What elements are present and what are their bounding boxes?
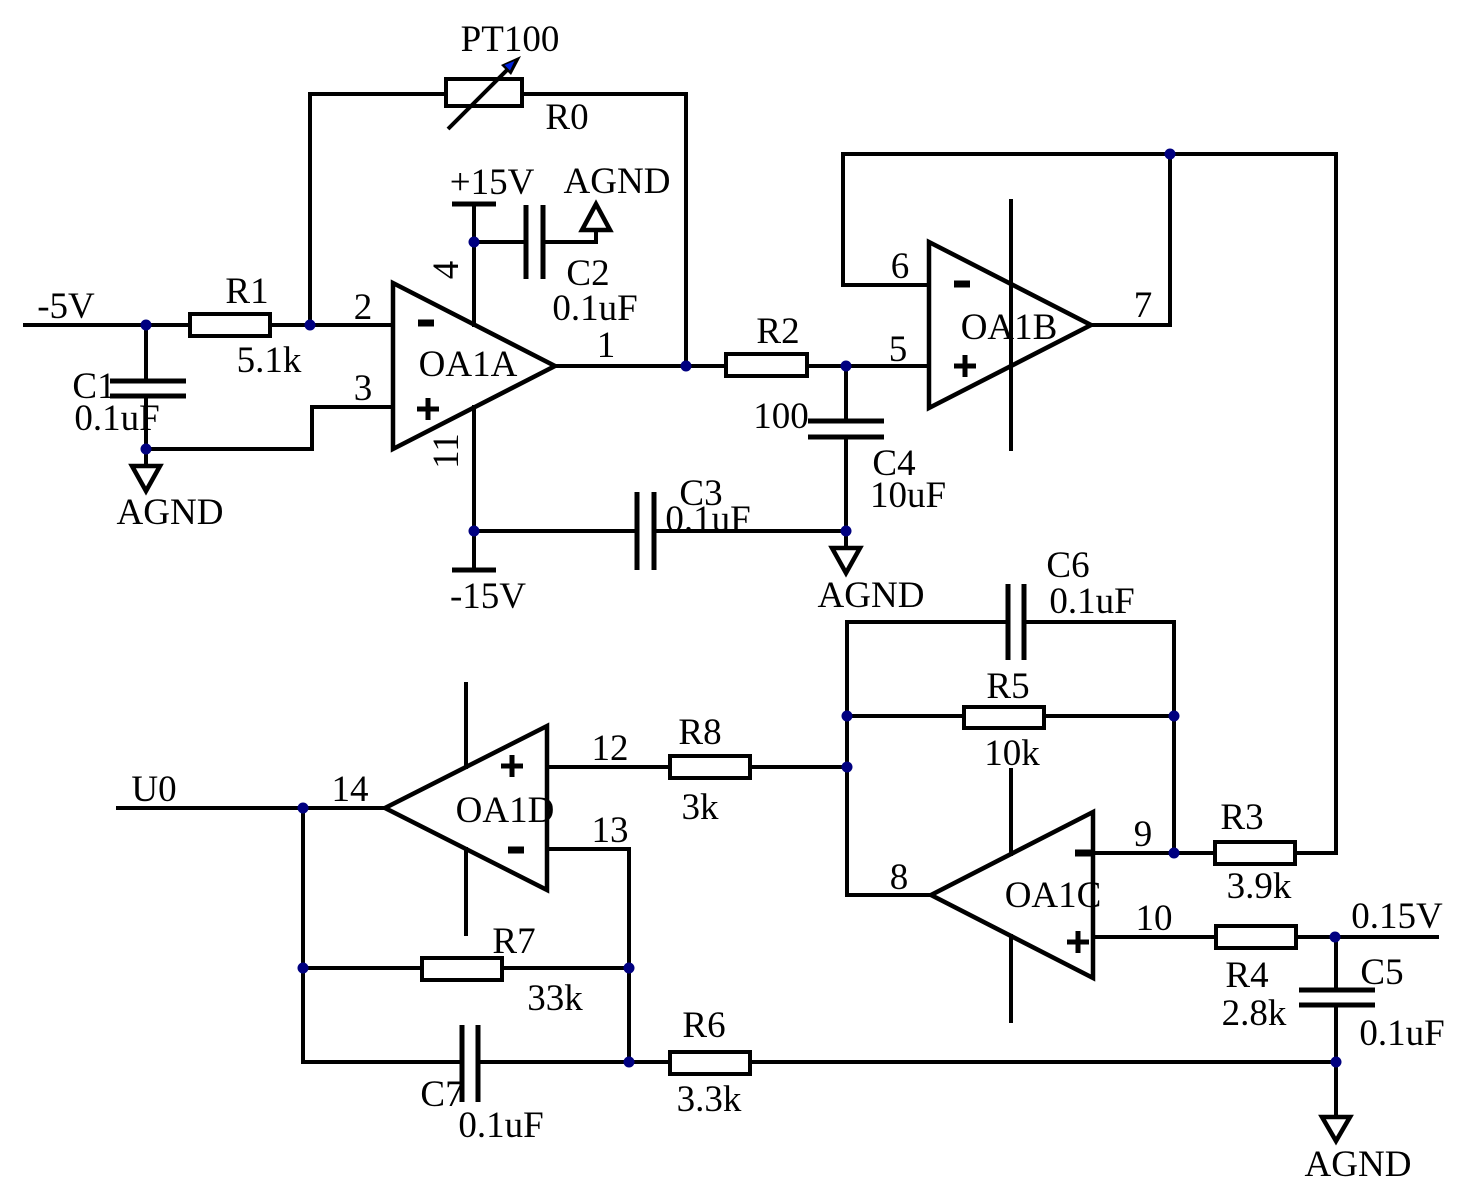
resistor R7 [422,958,502,980]
wire AGND stub below C4 [844,531,848,548]
capacitor C5 plates [1299,988,1375,993]
power +15V bar [452,202,496,207]
resistor R4 [1216,926,1296,948]
node pin1 output [681,361,692,372]
wire OA1B pin7 output [1091,154,1170,325]
capacitor C1 plates [110,379,186,384]
svg-text:33k: 33k [527,978,583,1019]
svg-text:6: 6 [891,246,910,287]
resistor R6 [670,1052,750,1074]
node pin9 / R3 [1169,848,1180,859]
node pin11 / C3 [469,526,480,537]
svg-text:3k: 3k [682,787,720,828]
wire R0 right vertical down to output [684,94,688,366]
wire R7 horizontal [303,966,629,970]
svg-text:PT100: PT100 [461,19,560,60]
op-amp OA1A minus [418,320,434,327]
node R1 / feedback [305,320,316,331]
ground AGND below C4 [832,548,860,573]
wire C2 left lead [474,240,526,244]
svg-text:U0: U0 [131,769,176,810]
wire OA1C pin8 [847,893,931,897]
wire C3 right lead [654,529,846,533]
PT100 wiper arrow [448,56,521,129]
svg-text:2: 2 [354,287,373,328]
wire OA1B pin6 feedback [843,154,929,285]
wire C5 bottom lead [1334,1005,1338,1062]
capacitor C2 plates [524,205,529,279]
svg-text:1: 1 [597,325,616,366]
svg-text:2.8k: 2.8k [1222,993,1287,1034]
svg-text:8: 8 [890,857,909,898]
op-amp OA1C plus [1067,940,1089,945]
wire C4 top lead [844,366,848,421]
op-amp U1 OA1D [385,726,547,890]
svg-text:0.1uF: 0.1uF [1359,1013,1444,1054]
wire C4 bottom lead [844,437,848,531]
wire OA1C pin9 through R3 [1093,851,1336,855]
svg-text:R6: R6 [682,1005,725,1046]
svg-text:AGND: AGND [1305,1144,1412,1185]
svg-text:14: 14 [332,769,369,810]
node C1 / pin3 / AGND [141,444,152,455]
resistor R8 [670,756,750,778]
svg-text:OA1D: OA1D [456,790,555,831]
capacitor C6 plates [1006,584,1011,660]
wire OA1A pin4 vertical [472,204,476,325]
svg-text:3.9k: 3.9k [1227,866,1292,907]
svg-text:-15V: -15V [450,576,526,617]
svg-text:R1: R1 [225,271,268,312]
svg-text:3.3k: 3.3k [677,1079,742,1120]
wire vertical junction to top feedback [308,94,312,325]
op-amp U1 OA1B [929,242,1091,408]
wire OA1A pin3 to C1 bottom node [146,407,393,449]
wire C1 top lead [144,325,148,381]
svg-text:12: 12 [592,728,629,769]
resistor R5 [964,707,1044,728]
wire right vertical to R3 [1334,154,1338,853]
ground AGND near C2 [582,204,610,230]
capacitor C7 plates [460,1025,465,1102]
op-amp OA1C minus [1075,850,1091,857]
ground AGND below C1 [132,466,160,491]
power -15V bar [452,568,496,573]
svg-text:R3: R3 [1220,797,1263,838]
svg-text:+15V: +15V [450,162,535,203]
svg-text:0.15V: 0.15V [1351,896,1443,937]
svg-text:0.1uF: 0.1uF [74,398,159,439]
svg-text:R5: R5 [986,666,1029,707]
op-amp U1 OA1A [393,283,555,449]
node C7 / R6 [624,1057,635,1068]
svg-text:100: 100 [753,396,809,437]
capacitor C3 plates [635,492,640,570]
svg-text:R7: R7 [492,921,535,962]
svg-text:10k: 10k [984,733,1040,774]
resistor R3 [1215,842,1295,864]
op-amp OA1D minus [508,847,524,854]
node C3 / C4 / AGND [841,526,852,537]
wire OA1C right feedback vertical [1172,622,1176,853]
node 0.15V / R4 / C5 [1330,932,1341,943]
svg-text:R4: R4 [1225,955,1268,996]
wire C3 left lead [474,529,637,533]
ground AGND below C5 [1322,1117,1350,1141]
wire C1 bottom lead [144,396,148,449]
wire OA1A pin11 vertical [472,407,476,570]
node R7 left [298,963,309,974]
wire OA1C power vertical bottom [1009,936,1013,1021]
wire -5V input to OA1A pin2 [25,323,393,327]
svg-text:-5V: -5V [37,286,95,327]
svg-text:R8: R8 [678,712,721,753]
svg-text:10: 10 [1136,898,1173,939]
svg-text:10uF: 10uF [870,475,946,516]
node R7 right / pin13 [624,963,635,974]
wire OA1A output pin1 through R2 to OA1B pin5 [555,364,929,368]
svg-text:AGND: AGND [117,492,224,533]
node OA1B feedback top [1165,149,1176,160]
wire R6 row right of C7 [478,1060,1336,1064]
wire OA1C pin10 through R4 to 0.15V [1093,935,1437,939]
wire left vertical U0 node [301,808,305,1062]
wire U0 input [118,806,385,810]
node -5V / C1 [141,320,152,331]
node U0 / pin14 [298,803,309,814]
svg-text:OA1C: OA1C [1005,875,1102,916]
svg-text:OA1A: OA1A [419,344,518,385]
wire R5 horizontal [847,714,1174,718]
wire OA1D power vertical top [464,684,468,767]
node R5 right [1169,711,1180,722]
op-amp OA1B plus [954,364,976,369]
svg-text:11: 11 [426,433,467,469]
svg-text:13: 13 [592,810,629,851]
svg-text:0.1uF: 0.1uF [665,499,750,540]
wire top feedback OA1B [843,152,1336,156]
svg-text:7: 7 [1134,285,1153,326]
svg-text:3: 3 [354,368,373,409]
svg-text:0.1uF: 0.1uF [1049,581,1134,622]
wire OA1C power vertical top [1009,770,1013,854]
svg-text:5.1k: 5.1k [237,340,302,381]
wire C6 top loop right [1024,620,1174,624]
node C5 / R6 [1331,1057,1342,1068]
resistor R1 [190,314,270,336]
svg-text:C7: C7 [420,1074,463,1115]
resistor R0 [446,79,522,106]
wire C2 right lead to AGND [543,230,596,242]
svg-text:5: 5 [889,329,908,370]
wire top feedback to R0 [310,92,686,96]
svg-text:R0: R0 [545,97,588,138]
wire OA1B power vertical [1009,201,1013,449]
wire C6 top loop left [847,620,1008,624]
wire OA1D pin12 through R8 [547,765,847,769]
wire AGND stub below C1 [144,449,148,466]
svg-text:OA1B: OA1B [961,307,1058,348]
svg-text:C6: C6 [1046,545,1089,586]
capacitor C4 plates [808,419,884,424]
op-amp OA1B minus [954,281,970,288]
wire R6 row left of C7 [303,1060,462,1064]
op-amp OA1D plus [501,764,523,769]
svg-text:AGND: AGND [818,575,925,616]
svg-text:0.1uF: 0.1uF [458,1105,543,1146]
node R5 left [842,711,853,722]
op-amp OA1A plus [417,407,439,412]
svg-text:9: 9 [1134,814,1153,855]
svg-text:C5: C5 [1360,952,1403,993]
wire AGND stub below C5 [1334,1062,1338,1117]
node R2 / C4 / pin5 [841,361,852,372]
resistor R2 [726,354,807,376]
svg-text:R2: R2 [756,311,799,352]
node R8 right [842,762,853,773]
node +15V / C2 [469,237,480,248]
wire C5 top lead [1334,937,1338,990]
wire OA1D pin13 down [547,849,629,1062]
svg-text:0.1uF: 0.1uF [552,288,637,329]
wire OA1C left feedback vertical [845,622,849,895]
wire OA1D power vertical bottom [464,849,468,934]
op-amp U1 OA1C [931,812,1093,978]
svg-text:4: 4 [426,261,467,280]
svg-text:AGND: AGND [564,161,671,202]
